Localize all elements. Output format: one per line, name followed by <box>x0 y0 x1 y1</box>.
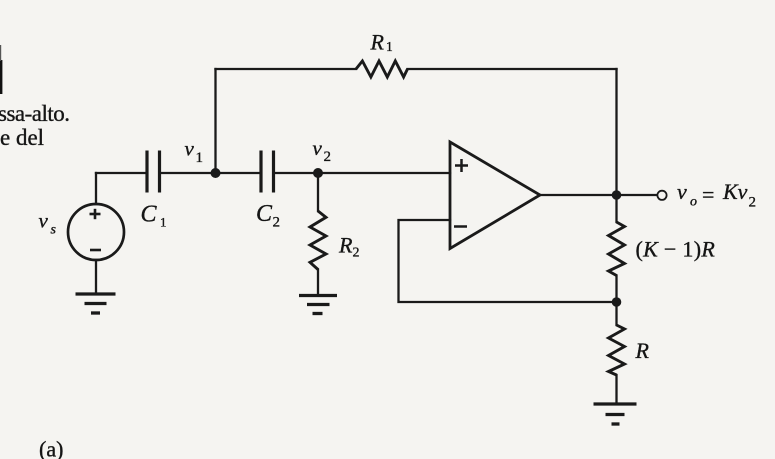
svg-text:s: s <box>51 223 57 238</box>
svg-text:1: 1 <box>386 39 393 54</box>
svg-text:v: v <box>185 137 195 161</box>
svg-text:R: R <box>370 30 385 55</box>
svg-text:v: v <box>677 179 687 204</box>
svg-text:=: = <box>702 182 714 207</box>
svg-text:2: 2 <box>324 149 332 165</box>
svg-text:o: o <box>690 195 697 210</box>
svg-text:C: C <box>141 201 158 227</box>
svg-text:R: R <box>338 232 353 257</box>
svg-text:2: 2 <box>273 214 281 230</box>
svg-text:1: 1 <box>160 215 167 230</box>
svg-text:(a): (a) <box>39 436 63 459</box>
svg-text:1: 1 <box>196 150 204 166</box>
svg-text:ssa-alto.: ssa-alto. <box>0 101 70 126</box>
svg-text:e del: e del <box>0 125 44 150</box>
svg-text:Kv: Kv <box>722 179 748 204</box>
svg-text:v: v <box>39 209 49 233</box>
svg-text:2: 2 <box>749 195 757 211</box>
svg-text:R: R <box>635 338 650 363</box>
svg-text:v: v <box>313 136 323 160</box>
svg-text:2: 2 <box>353 246 360 261</box>
svg-text:C: C <box>256 201 273 227</box>
svg-text:(K − 1)R: (K − 1)R <box>636 237 716 262</box>
